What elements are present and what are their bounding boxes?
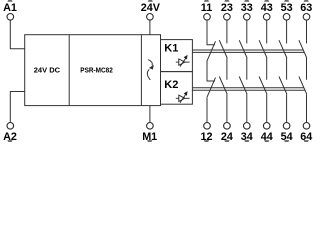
svg-text:43: 43 (261, 2, 273, 14)
svg-text:63: 63 (300, 2, 312, 14)
svg-text:A1: A1 (3, 2, 17, 14)
svg-text:33: 33 (241, 2, 253, 14)
svg-text:12: 12 (200, 131, 212, 142)
svg-text:M1: M1 (142, 131, 157, 142)
svg-text:11: 11 (201, 2, 212, 14)
svg-text:44: 44 (261, 131, 273, 142)
svg-text:23: 23 (221, 2, 233, 14)
svg-text:24V: 24V (141, 2, 161, 14)
svg-text:A2: A2 (3, 131, 17, 142)
svg-text:54: 54 (281, 131, 293, 142)
svg-text:53: 53 (281, 2, 293, 14)
svg-text:K1: K1 (164, 43, 178, 55)
svg-text:K2: K2 (164, 79, 178, 91)
svg-text:24V DC: 24V DC (34, 66, 61, 75)
svg-text:64: 64 (300, 131, 312, 142)
svg-text:34: 34 (241, 131, 253, 142)
svg-text:24: 24 (221, 131, 233, 142)
svg-text:PSR-MC82: PSR-MC82 (80, 66, 113, 75)
